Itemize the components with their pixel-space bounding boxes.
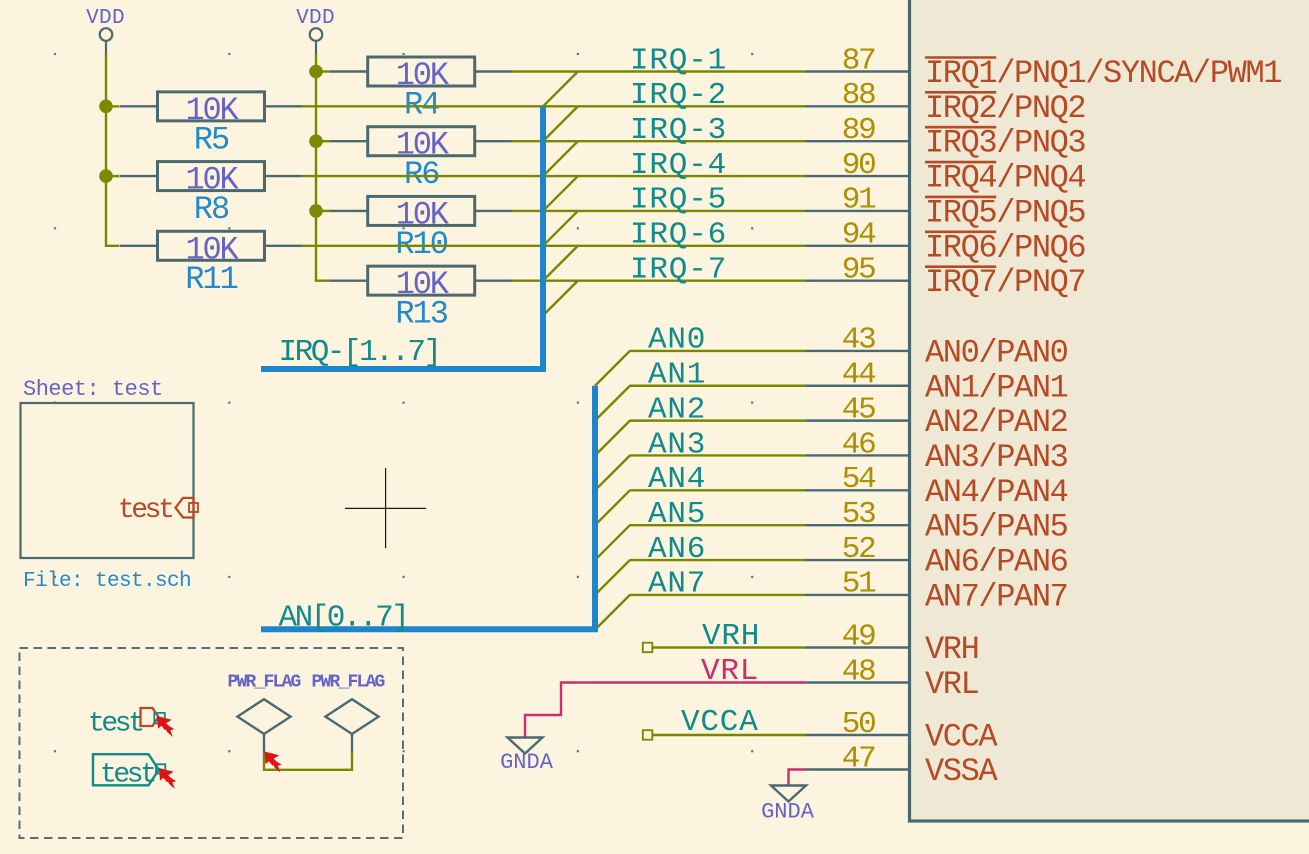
svg-text:89: 89 (842, 113, 875, 148)
pin 89 (IRQ3/PNQ3) (806, 113, 1086, 162)
svg-text:AN0: AN0 (648, 323, 706, 358)
junction rail2/R6 (309, 134, 323, 148)
wire VDD rail 1 (left) (106, 54, 120, 246)
svg-text:AN[0..7]: AN[0..7] (279, 601, 408, 636)
svg-text:test: test (118, 495, 172, 526)
pin 49 (VRH) (806, 619, 979, 668)
bus entry IRQ-1 (543, 72, 578, 107)
pin 90 (IRQ4/PNQ4) (806, 148, 1086, 197)
selection box (dashed) (20, 648, 404, 838)
pin 44 (AN1/PAN1) (806, 358, 1068, 407)
wire between PWR_FLAGs (264, 753, 352, 770)
svg-text:R8: R8 (194, 191, 229, 228)
wire rail1 to R8 (106, 175, 120, 177)
resistor R8 (120, 162, 302, 191)
svg-text:52: 52 (842, 532, 875, 567)
svg-text:Sheet: test: Sheet: test (23, 377, 163, 402)
resistor R6 (330, 127, 512, 156)
pin 45 (AN2/PAN2) (806, 392, 1068, 441)
svg-text:test: test (88, 709, 142, 740)
pin 47 (VSSA) (806, 741, 999, 790)
svg-text:AN7/PAN7: AN7/PAN7 (925, 578, 1067, 615)
svg-text:IRQ-2: IRQ-2 (630, 78, 727, 113)
pin 48 (VRL) (806, 654, 979, 703)
wire net VRH (652, 646, 806, 648)
svg-text:IRQ-3: IRQ-3 (630, 113, 727, 148)
svg-text:IRQ5/PNQ5: IRQ5/PNQ5 (925, 194, 1085, 231)
svg-text:IRQ6/PNQ6: IRQ6/PNQ6 (925, 229, 1085, 266)
svg-text:VRL: VRL (925, 666, 979, 703)
unconnected end marker VCCA (643, 730, 653, 740)
svg-text:94: 94 (842, 218, 876, 253)
svg-text:GNDA: GNDA (761, 800, 815, 825)
svg-text:File: test.sch: File: test.sch (23, 570, 191, 593)
svg-text:53: 53 (842, 497, 875, 532)
svg-text:VDD: VDD (296, 7, 335, 30)
svg-text:49: 49 (842, 619, 875, 654)
IC body (MCU, right side) (910, 0, 1309, 821)
svg-text:88: 88 (842, 78, 875, 113)
pin 43 (AN0/PAN0) (806, 323, 1068, 372)
svg-text:51: 51 (842, 567, 876, 602)
svg-text:PWR_FLAG: PWR_FLAG (228, 673, 301, 693)
resistor R10 (330, 196, 512, 225)
svg-text:AN1/PAN1: AN1/PAN1 (925, 369, 1068, 406)
junction rail2/R10 (309, 204, 323, 218)
pin 52 (AN6/PAN6) (806, 532, 1068, 581)
wire net AN1 (630, 385, 806, 387)
pin 46 (AN3/PAN3) (806, 427, 1068, 476)
svg-text:AN3/PAN3: AN3/PAN3 (925, 439, 1068, 476)
wire net IRQ-7 (512, 279, 806, 281)
pin 87 (IRQ1/PNQ1/SYNCA/PWM1) (806, 43, 1282, 92)
bus entry AN3 (595, 455, 630, 490)
svg-text:IRQ7/PNQ7: IRQ7/PNQ7 (925, 264, 1085, 301)
wire rail2 to R6 (316, 140, 331, 142)
svg-text:IRQ1/PNQ1/SYNCA/PWM1: IRQ1/PNQ1/SYNCA/PWM1 (925, 55, 1281, 92)
power flag PWR_FLAG #1 (228, 673, 301, 754)
wire VDD rail 2 (right) (316, 54, 331, 281)
sheet pin 'test' (118, 495, 198, 526)
bus entry AN1 (595, 386, 630, 421)
svg-text:95: 95 (842, 252, 875, 287)
svg-text:AN4/PAN4: AN4/PAN4 (925, 474, 1068, 511)
svg-text:R11: R11 (185, 261, 237, 298)
bus entry IRQ-2 (543, 106, 578, 141)
bus entry IRQ-5 (543, 211, 578, 246)
svg-text:R4: R4 (404, 87, 439, 124)
svg-text:AN7: AN7 (648, 567, 706, 602)
svg-text:AN6: AN6 (648, 532, 706, 567)
pin 51 (AN7/PAN7) (806, 567, 1068, 616)
svg-text:IRQ-4: IRQ-4 (630, 148, 727, 183)
bus entry AN0 (595, 351, 630, 386)
svg-text:test: test (100, 760, 154, 791)
wire net IRQ-3 (512, 140, 806, 142)
svg-text:IRQ3/PNQ3: IRQ3/PNQ3 (925, 125, 1085, 162)
pin 88 (IRQ2/PNQ2) (806, 78, 1086, 127)
resistor R4 (330, 57, 512, 86)
ERC marker arrow #2 (159, 768, 176, 789)
svg-text:48: 48 (842, 654, 875, 689)
svg-text:VCCA: VCCA (925, 719, 998, 756)
hierarchical label 'test' (88, 708, 165, 740)
svg-text:IRQ4/PNQ4: IRQ4/PNQ4 (925, 160, 1085, 197)
svg-text:AN1: AN1 (648, 358, 706, 393)
wire net AN3 (630, 454, 806, 456)
svg-text:87: 87 (842, 43, 875, 78)
svg-text:GNDA: GNDA (500, 750, 554, 775)
pin 50 (VCCA) (806, 707, 999, 756)
svg-text:90: 90 (842, 148, 875, 183)
svg-text:AN3: AN3 (648, 427, 706, 462)
resistor R5 (120, 92, 302, 121)
bus entry IRQ-6 (543, 246, 578, 281)
svg-text:VSSA: VSSA (925, 753, 998, 790)
svg-text:47: 47 (842, 741, 875, 776)
svg-text:R6: R6 (404, 156, 439, 193)
power flag PWR_FLAG #2 (312, 673, 385, 754)
wire net VCCA (652, 734, 806, 736)
resistor R13 (330, 266, 512, 295)
svg-text:AN5: AN5 (648, 497, 706, 532)
svg-text:AN2/PAN2: AN2/PAN2 (925, 404, 1067, 441)
ground symbol GNDA #2 (761, 786, 815, 825)
wire net IRQ-5 (512, 210, 806, 212)
junction rail1/R5 (99, 100, 113, 114)
wire net IRQ-6 (302, 245, 806, 247)
power symbol VDD #1 (86, 7, 125, 54)
svg-text:AN4: AN4 (648, 462, 706, 497)
wire net IRQ-2 (302, 105, 806, 107)
ground symbol GNDA #1 (500, 738, 554, 776)
bus IRQ-[1..7] (261, 106, 543, 369)
bus entry IRQ-4 (543, 176, 578, 211)
svg-text:50: 50 (842, 707, 875, 742)
svg-text:IRQ-6: IRQ-6 (630, 218, 727, 253)
svg-text:R10: R10 (395, 226, 447, 263)
ERC marker arrow #3 (265, 752, 282, 773)
wire rail1 to R5 (106, 105, 120, 107)
global label 'test' (93, 754, 165, 790)
svg-text:AN6/PAN6: AN6/PAN6 (925, 544, 1068, 581)
bus entry AN5 (595, 525, 630, 560)
wire net AN5 (630, 524, 806, 526)
svg-text:IRQ2/PNQ2: IRQ2/PNQ2 (925, 90, 1085, 127)
wire net AN0 (630, 350, 806, 352)
wire net AN6 (630, 559, 806, 561)
wire rail2 to R10 (316, 210, 331, 212)
svg-text:44: 44 (842, 358, 876, 393)
bus entry IRQ-3 (543, 141, 578, 176)
wire rail2 to R4 (316, 70, 331, 72)
ERC marker arrow #1 (157, 716, 174, 737)
wire net VRL (pink) (525, 683, 806, 738)
svg-text:IRQ-5: IRQ-5 (630, 183, 727, 218)
bus entry AN7 (595, 595, 630, 630)
svg-text:54: 54 (842, 462, 876, 497)
bus entry AN2 (595, 421, 630, 456)
hierarchical sheet 'test' (21, 403, 194, 558)
svg-text:45: 45 (842, 392, 875, 427)
power symbol VDD #2 (296, 7, 335, 54)
junction rail2/R4 (309, 65, 323, 79)
pin 53 (AN5/PAN5) (806, 497, 1068, 546)
svg-text:43: 43 (842, 323, 875, 358)
svg-text:AN0/PAN0: AN0/PAN0 (925, 334, 1068, 371)
pin 54 (AN4/PAN4) (806, 462, 1068, 511)
pin 95 (IRQ7/PNQ7) (806, 252, 1086, 301)
svg-text:VRH: VRH (925, 631, 978, 668)
svg-text:IRQ-7: IRQ-7 (630, 252, 727, 287)
svg-text:IRQ-[1..7]: IRQ-[1..7] (279, 335, 440, 370)
wire net VSSA (pink) (789, 770, 807, 786)
svg-text:VRH: VRH (702, 619, 760, 654)
svg-text:AN2: AN2 (648, 392, 706, 427)
wire net IRQ-4 (302, 175, 806, 177)
bus entry AN4 (595, 490, 630, 525)
svg-text:VDD: VDD (86, 7, 125, 30)
wire net IRQ-1 (512, 70, 806, 72)
junction rail1/R8 (99, 169, 113, 183)
crosshair cursor (345, 468, 426, 548)
wire net AN4 (630, 489, 806, 491)
wire net AN2 (630, 419, 806, 421)
svg-text:46: 46 (842, 427, 875, 462)
svg-text:AN5/PAN5: AN5/PAN5 (925, 509, 1068, 546)
bus entry IRQ-7 (543, 281, 578, 316)
svg-text:VRL: VRL (701, 654, 759, 689)
bus AN[0..7] (261, 386, 595, 630)
resistor R11 (120, 231, 302, 260)
pin 94 (IRQ6/PNQ6) (806, 218, 1086, 267)
svg-text:R13: R13 (395, 296, 447, 333)
pin 91 (IRQ5/PNQ5) (806, 183, 1086, 232)
unconnected end marker VRH (643, 643, 653, 653)
svg-text:PWR_FLAG: PWR_FLAG (312, 673, 385, 693)
wire net AN7 (630, 594, 806, 596)
svg-text:IRQ-1: IRQ-1 (630, 43, 727, 78)
bus entry AN6 (595, 560, 630, 595)
svg-text:91: 91 (842, 183, 876, 218)
svg-text:R5: R5 (194, 121, 229, 158)
